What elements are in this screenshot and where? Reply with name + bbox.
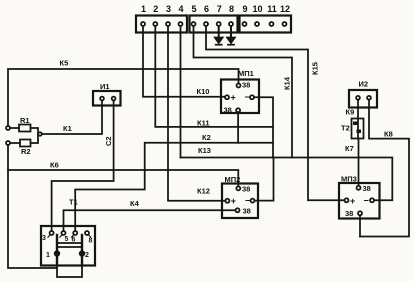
- svg-text:11: 11: [267, 4, 277, 14]
- wire K1: junction to I1 left pin: [42, 106, 102, 135]
- svg-text:И2: И2: [359, 80, 369, 89]
- wire: T1 bottom U link: [57, 266, 82, 278]
- wire C2: I1 right pin down to T1 terminal 3: [52, 106, 114, 232]
- svg-text:К4: К4: [130, 199, 140, 208]
- svg-text:2: 2: [153, 4, 158, 14]
- svg-text:К2: К2: [202, 133, 211, 142]
- unit I1: [93, 91, 121, 106]
- svg-text:5: 5: [65, 236, 69, 243]
- wire K2: MP1 minus / K11 down-left to T1 terminal 6: [75, 143, 273, 231]
- svg-text:МП3: МП3: [341, 175, 357, 184]
- connector block pins 9-12: [240, 16, 292, 33]
- svg-text:3: 3: [166, 4, 171, 14]
- resistor R1: [6, 125, 38, 135]
- svg-text:+: +: [350, 196, 355, 206]
- svg-text:3: 3: [42, 235, 46, 242]
- svg-text:К7: К7: [345, 144, 354, 153]
- motor unit MP3: [339, 183, 380, 219]
- svg-text:К1: К1: [63, 124, 72, 133]
- wire K13: pin4 rail across to MP3 minus: [181, 158, 393, 201]
- svg-text:8: 8: [229, 4, 234, 14]
- svg-text:К8: К8: [384, 130, 393, 139]
- wire K6: left rail to MP2 top pin: [8, 170, 238, 186]
- svg-text:R2: R2: [21, 147, 31, 156]
- svg-text:МП1: МП1: [238, 69, 254, 78]
- svg-text:С2: С2: [104, 136, 113, 146]
- wire: pin4 to K13 rail: [180, 26, 182, 158]
- wire: pin1 to K10: [143, 26, 225, 97]
- svg-text:К11: К11: [197, 119, 210, 128]
- svg-text:Т2: Т2: [341, 124, 350, 133]
- svg-text:4: 4: [178, 4, 183, 14]
- svg-text:1: 1: [141, 4, 146, 14]
- wire: MP3 bottom pin drop: [359, 215, 361, 236]
- svg-text:К14: К14: [283, 76, 292, 90]
- svg-text:Т1: Т1: [69, 198, 78, 207]
- svg-text:+: +: [231, 196, 236, 206]
- wire: left rail R2 down to T1 terminal legs: [8, 145, 57, 268]
- wire: pin3 to K12: [168, 26, 225, 201]
- svg-text:38: 38: [243, 207, 251, 216]
- svg-text:38: 38: [363, 184, 371, 193]
- svg-text:R1: R1: [20, 116, 30, 125]
- unit I2: [349, 90, 377, 108]
- svg-text:−: −: [364, 195, 369, 205]
- svg-text:12: 12: [280, 4, 290, 14]
- svg-text:К15: К15: [311, 62, 320, 75]
- svg-text:К10: К10: [197, 87, 210, 96]
- svg-text:8: 8: [89, 238, 93, 245]
- resistor R2: [6, 134, 38, 147]
- svg-text:К5: К5: [60, 59, 69, 68]
- connector block pins 1-4: [136, 16, 187, 33]
- wire K9: I2 left pin to T2: [357, 108, 359, 119]
- svg-text:1: 1: [46, 252, 50, 259]
- node: R1/R2 junction: [38, 132, 42, 136]
- svg-text:5: 5: [191, 4, 196, 14]
- wire: pin2 to K11: [155, 26, 273, 127]
- svg-text:К6: К6: [50, 161, 59, 170]
- thermal breaker T2: [352, 119, 364, 139]
- svg-text:10: 10: [252, 4, 262, 14]
- svg-text:−: −: [245, 92, 250, 102]
- svg-text:К13: К13: [198, 146, 211, 155]
- motor unit MP1: [221, 80, 259, 114]
- wire: MP1 minus to K11/K2 rail: [254, 97, 273, 157]
- svg-text:7: 7: [217, 4, 222, 14]
- svg-text:МП2: МП2: [225, 175, 241, 184]
- wire: pin5 to K14 rail: [194, 26, 293, 158]
- wire K8: I2 right pin to MP3 bottom pin: [360, 108, 409, 237]
- wire K4: T1 terminal 5 to MP2 bottom pin: [64, 210, 236, 231]
- svg-text:9: 9: [242, 4, 247, 14]
- svg-text:+: +: [231, 93, 236, 103]
- wire: MP1 bottom pin drop to K2: [237, 112, 239, 143]
- wire: MP2 minus drop from K13: [255, 158, 274, 201]
- connector block pins 5-8: [190, 16, 238, 33]
- wire: pin6 to K15 rail: [206, 26, 344, 200]
- svg-text:−: −: [245, 196, 250, 206]
- ground pin7: [215, 26, 223, 45]
- svg-text:6: 6: [204, 4, 209, 14]
- svg-text:К9: К9: [346, 108, 355, 117]
- svg-text:38: 38: [224, 106, 232, 115]
- svg-text:38: 38: [242, 185, 250, 194]
- switch unit T1: [41, 226, 95, 266]
- svg-text:38: 38: [242, 81, 250, 90]
- svg-text:2: 2: [85, 252, 89, 259]
- svg-text:И1: И1: [100, 82, 110, 91]
- motor unit MP2: [222, 184, 258, 219]
- svg-text:6: 6: [72, 237, 76, 244]
- wire K7: T2 down to MP3 top pin: [358, 139, 360, 186]
- svg-text:К12: К12: [197, 187, 210, 196]
- svg-text:38: 38: [345, 209, 353, 218]
- wire K5: left rail to MP1 top: [8, 69, 239, 126]
- ground pin8: [227, 26, 235, 45]
